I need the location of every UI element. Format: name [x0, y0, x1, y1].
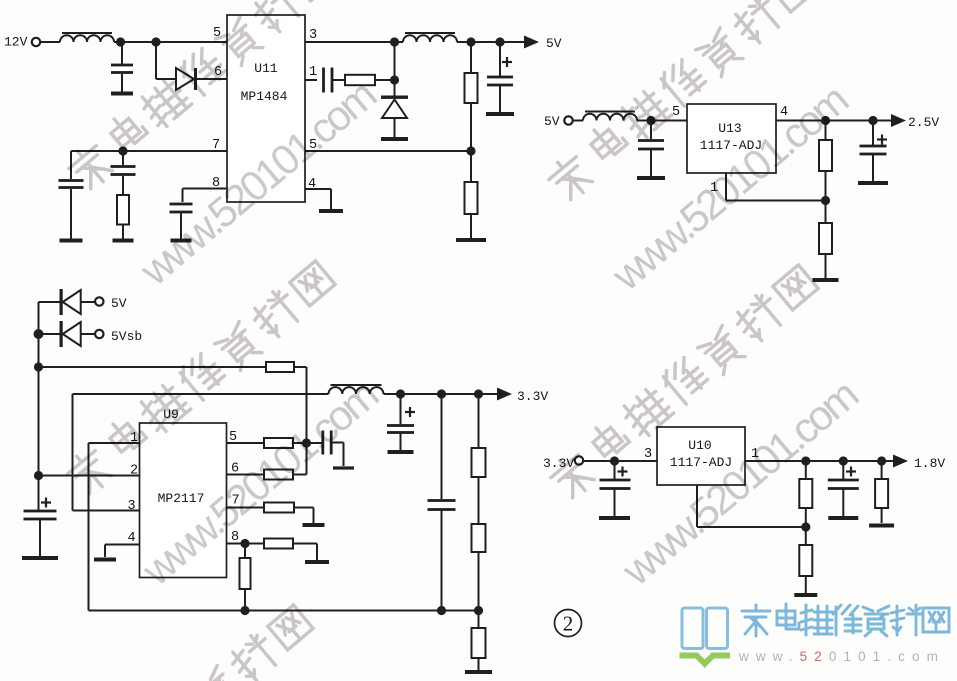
- svg-text:3: 3: [644, 447, 652, 462]
- svg-text:5V: 5V: [546, 36, 562, 51]
- svg-text:3: 3: [309, 28, 317, 43]
- svg-text:3.3V: 3.3V: [517, 389, 548, 404]
- svg-text:2: 2: [563, 612, 574, 636]
- svg-text:U13: U13: [718, 121, 741, 136]
- svg-text:MP1484: MP1484: [241, 89, 288, 104]
- svg-text:5Vsb: 5Vsb: [111, 329, 142, 344]
- svg-text:1.8V: 1.8V: [914, 456, 945, 471]
- svg-text:3: 3: [127, 499, 135, 514]
- svg-text:2.5V: 2.5V: [908, 115, 939, 130]
- svg-text:5: 5: [672, 105, 680, 120]
- svg-text:U10: U10: [688, 438, 711, 453]
- svg-text:12V: 12V: [4, 35, 28, 50]
- svg-text:5V: 5V: [111, 296, 127, 311]
- svg-text:5V: 5V: [544, 114, 560, 129]
- svg-text:www.520101.com: www.520101.com: [738, 649, 945, 664]
- svg-text:U11: U11: [254, 61, 278, 76]
- svg-text:1: 1: [309, 65, 317, 80]
